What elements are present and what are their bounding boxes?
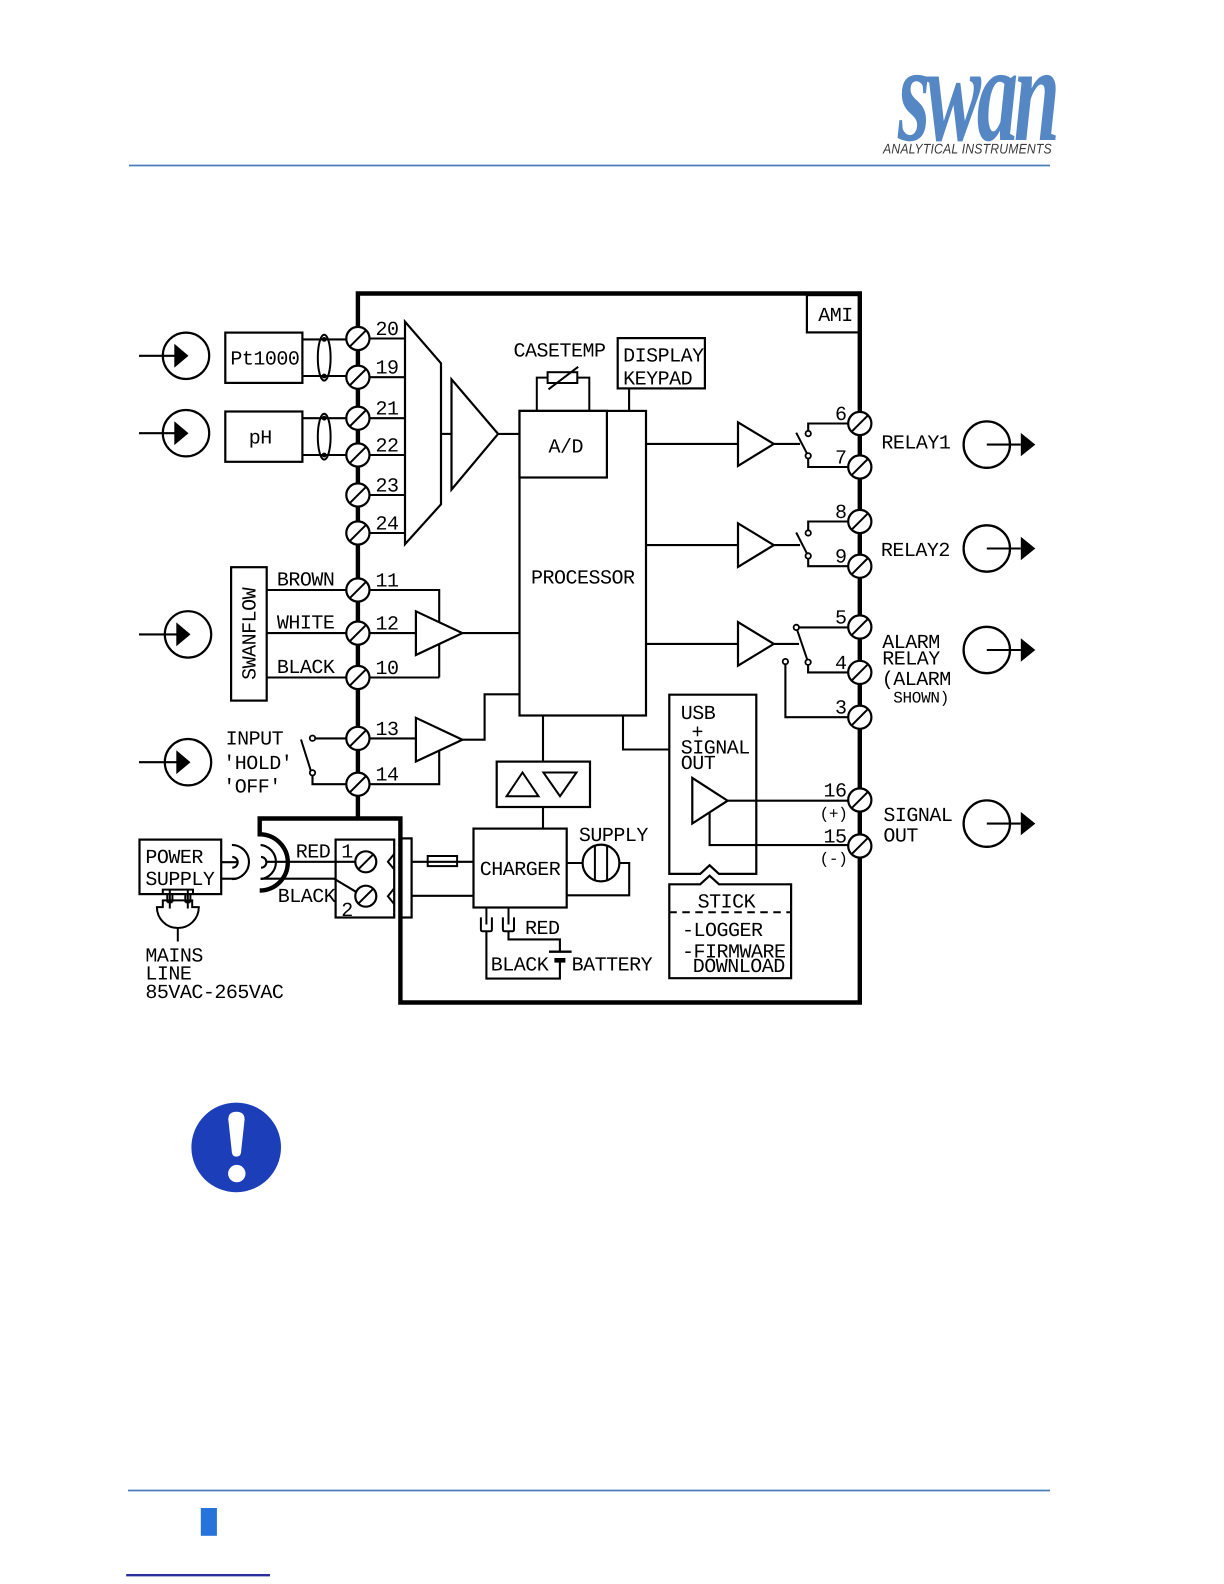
svg-text:15: 15: [823, 827, 846, 850]
svg-text:RELAY1: RELAY1: [881, 432, 951, 455]
svg-text:7: 7: [835, 448, 847, 471]
terminal 8: [848, 510, 871, 533]
amplifier alarm driver: [738, 622, 799, 666]
wire 14 loop: [370, 745, 440, 784]
A/D box: [520, 411, 607, 478]
svg-text:10: 10: [376, 658, 399, 681]
amplifier A2 swanflow: [416, 611, 520, 655]
svg-text:CASETEMP: CASETEMP: [514, 341, 606, 364]
output connector relay1: [964, 421, 1036, 467]
Pt1000 box: [225, 333, 302, 383]
DISPLAY KEYPAD box: [618, 338, 705, 411]
wire swanflow loop 11: [370, 590, 440, 678]
wire BLACK to terminal 2: [261, 879, 356, 892]
svg-text:A/D: A/D: [549, 436, 584, 459]
header rule: [129, 165, 1050, 167]
wire 13: [370, 737, 416, 739]
stick box: [669, 876, 791, 979]
svg-text:16: 16: [823, 781, 846, 804]
svg-text:14: 14: [376, 765, 399, 788]
sensor input connector Pt1000: [139, 333, 209, 379]
wire processor to usb box: [623, 716, 669, 750]
shield ellipse pH cable: [318, 414, 331, 460]
wire pH to terminal 22: [302, 454, 346, 456]
svg-text:2: 2: [341, 900, 353, 923]
svg-text:BLACK: BLACK: [277, 657, 335, 680]
sensor input connector swanflow: [139, 611, 211, 657]
svg-text:(-): (-): [820, 850, 848, 868]
power cable connector plug: [221, 845, 249, 879]
sensor input connector hold: [139, 739, 211, 785]
svg-text:OUT: OUT: [883, 825, 918, 848]
svg-text:9: 9: [835, 547, 847, 570]
svg-text:BATTERY: BATTERY: [572, 955, 653, 978]
svg-text:4: 4: [835, 653, 847, 676]
terminal 15: [848, 834, 871, 857]
svg-text:CHARGER: CHARGER: [480, 859, 561, 882]
svg-text:BLACK: BLACK: [278, 886, 336, 909]
wire battery red: [509, 931, 560, 951]
PROCESSOR box: [520, 411, 647, 716]
svg-text:RELAY2: RELAY2: [881, 540, 950, 563]
svg-text:INPUT: INPUT: [226, 729, 284, 752]
output connector relay2: [964, 525, 1036, 571]
svg-text:1: 1: [341, 841, 353, 864]
wire BLACK to terminal 10: [267, 676, 347, 678]
amplifier relay1 driver: [738, 422, 800, 466]
terminal 19: [346, 366, 369, 389]
wire WHITE to terminal 12: [267, 632, 347, 634]
terminal 24: [346, 521, 369, 544]
terminal 21: [346, 407, 369, 430]
svg-text:13: 13: [376, 719, 399, 742]
wire usb signal 15: [710, 810, 849, 845]
svg-text:6: 6: [835, 404, 847, 427]
right terminal strip circles: [848, 412, 871, 858]
wire swanflow 10: [370, 676, 440, 678]
amplifier A3 hold input: [416, 694, 520, 761]
svg-text:BLACK: BLACK: [491, 955, 549, 978]
terminal 10: [346, 666, 369, 689]
svg-text:SHOWN): SHOWN): [893, 690, 949, 708]
svg-text:DOWNLOAD: DOWNLOAD: [693, 956, 785, 979]
alarm relay wire from processor: [646, 643, 738, 645]
sensor input connector pH: [139, 410, 209, 456]
svg-text:'HOLD': 'HOLD': [223, 753, 292, 776]
svg-text:ANALYTICAL INSTRUMENTS: ANALYTICAL INSTRUMENTS: [882, 141, 1052, 157]
terminal block 1/2: [336, 840, 395, 918]
amplifier signal out: [692, 778, 848, 824]
amplifier relay2 driver: [738, 523, 800, 567]
relay2 wire from processor: [646, 544, 738, 546]
wire processor to updown: [542, 716, 544, 762]
warning icon: [191, 1103, 281, 1193]
wire battery black: [486, 931, 560, 978]
svg-text:23: 23: [376, 476, 399, 499]
terminal 23: [346, 483, 369, 506]
footer rule: [128, 1490, 1050, 1492]
svg-text:3: 3: [835, 698, 847, 721]
battery symbol: [549, 952, 572, 961]
terminal block plug column: [400, 838, 411, 917]
stick dashed divider: [669, 911, 791, 913]
svg-text:DISPLAY: DISPLAY: [623, 345, 704, 368]
logo subtitle ANALYTICAL INSTRUMENTS: [882, 141, 1052, 157]
svg-text:PROCESSOR: PROCESSOR: [531, 568, 635, 591]
left terminal strip circles: [346, 327, 369, 796]
wire BROWN to terminal 11: [267, 589, 347, 591]
wire pH to terminal 21: [302, 417, 346, 419]
wire swanflow 12: [370, 632, 416, 634]
relay1 contact: [796, 424, 848, 468]
power supply box: [140, 840, 222, 895]
svg-text:SUPPLY: SUPPLY: [145, 869, 215, 892]
svg-text:RED: RED: [525, 918, 560, 941]
shield ellipse Pt1000 cable: [318, 335, 331, 381]
terminal 13: [346, 727, 369, 750]
svg-text:WHITE: WHITE: [277, 613, 335, 636]
terminal 5: [848, 615, 871, 638]
instrument inlet connector: [261, 845, 276, 879]
svg-text:Pt1000: Pt1000: [230, 348, 299, 371]
terminal 9: [848, 555, 871, 578]
fuse: [412, 856, 474, 866]
svg-text:POWER: POWER: [145, 847, 203, 870]
terminal 20: [346, 327, 369, 350]
pH box: [225, 412, 302, 462]
terminal 11: [346, 578, 369, 601]
svg-text:SWANFLOW: SWANFLOW: [240, 587, 263, 680]
swan logo: [897, 16, 1056, 170]
svg-text:20: 20: [376, 319, 399, 342]
relay2 contact: [796, 522, 848, 567]
relay1 wire from processor: [646, 443, 738, 445]
CHARGER box: [474, 829, 567, 908]
svg-text:22: 22: [376, 436, 399, 459]
svg-text:(+): (+): [820, 805, 848, 823]
svg-text:-LOGGER: -LOGGER: [682, 920, 763, 943]
wire Pt1000 to terminal 19: [302, 375, 346, 377]
svg-text:RED: RED: [296, 841, 331, 864]
terminal 12: [346, 622, 369, 645]
enclosure outline AMI (thick): [260, 294, 860, 1003]
wire updown to charger: [542, 807, 544, 829]
CASETEMP thermistor: [537, 367, 590, 411]
SWANFLOW box: [231, 567, 267, 700]
terminal 6: [848, 412, 871, 435]
alarm relay contact: [783, 625, 849, 718]
svg-text:AMI: AMI: [818, 305, 853, 328]
svg-text:STICK: STICK: [698, 891, 756, 914]
svg-text:OUT: OUT: [681, 753, 716, 776]
switch input hold/off: [301, 736, 346, 785]
multiplexer trapezoid: [370, 322, 442, 545]
svg-text:85VAC-265VAC: 85VAC-265VAC: [145, 982, 284, 1005]
svg-text:12: 12: [376, 614, 399, 637]
amplifier A1 input stage: [441, 379, 520, 489]
AMI label box: [807, 295, 860, 332]
svg-text:11: 11: [376, 571, 400, 594]
svg-text:pH: pH: [249, 427, 272, 450]
terminal 14: [346, 773, 369, 796]
svg-text:KEYPAD: KEYPAD: [623, 369, 692, 392]
output connector alarm: [964, 627, 1036, 673]
svg-text:24: 24: [376, 514, 399, 537]
terminal 1: [355, 851, 394, 872]
usb signal out box: [669, 695, 756, 874]
svg-text:19: 19: [376, 358, 399, 381]
wire RED to terminal 1: [266, 861, 356, 863]
mains plug symbol: [157, 890, 199, 942]
output connector signal out: [964, 800, 1036, 846]
terminal 16: [848, 788, 871, 811]
svg-text:8: 8: [835, 502, 847, 525]
svg-text:5: 5: [835, 608, 847, 631]
terminal 4: [848, 661, 871, 684]
terminal 2: [355, 886, 394, 907]
wire terminal2 to charger: [412, 895, 474, 897]
updown keys box: [497, 762, 590, 807]
footer blue marker: [201, 1508, 217, 1536]
supply symbol: [567, 845, 630, 896]
terminal 7: [848, 455, 871, 478]
terminal 22: [346, 443, 369, 466]
charger battery plugs: [481, 908, 514, 932]
svg-text:'OFF': 'OFF': [223, 776, 281, 799]
svg-text:BROWN: BROWN: [277, 570, 335, 593]
svg-text:21: 21: [376, 399, 400, 422]
wire Pt1000 to terminal 20: [302, 338, 346, 340]
terminal 3: [848, 706, 871, 729]
svg-text:SUPPLY: SUPPLY: [579, 825, 649, 848]
footer navy line: [126, 1574, 270, 1576]
